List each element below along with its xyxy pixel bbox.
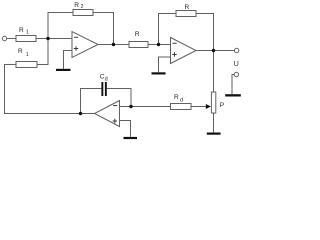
ground bar U1 plus: [56, 69, 71, 71]
resistor R middle body: [129, 42, 148, 48]
junction node F dot: [129, 105, 132, 108]
wire R1b to node A: [37, 39, 48, 65]
svg-text:U: U: [234, 61, 239, 68]
wire potentiometer to ground: [213, 113, 215, 133]
wire R2 to node B: [93, 13, 114, 45]
ground bar U3 plus: [124, 137, 138, 139]
junction node E dot: [79, 112, 82, 115]
junction node C dot: [157, 43, 160, 46]
capacitor Cd right plate: [105, 82, 107, 96]
wire node E up to capacitor Cd: [81, 89, 102, 114]
ground bar potentiometer: [207, 133, 221, 135]
ground bar U2 plus: [152, 72, 166, 74]
wire capacitor Cd to node F: [107, 89, 131, 107]
resistor R1 top body: [16, 36, 36, 42]
svg-text:P: P: [220, 102, 224, 109]
svg-text:R: R: [185, 4, 190, 11]
output terminal circle U: [234, 48, 238, 52]
svg-text:R: R: [135, 31, 140, 38]
wire node A up and to R2: [48, 13, 73, 39]
potentiometer wiper arrowhead: [206, 104, 211, 109]
svg-text:d: d: [180, 97, 183, 103]
wire U2 plus to ground: [159, 57, 171, 72]
capacitor Cd left plate: [101, 82, 103, 96]
wire node D down to potentiometer: [213, 51, 215, 93]
resistor R2 body: [73, 10, 93, 16]
op-amp U2 triangle: [171, 38, 197, 64]
wire input to R1a: [7, 38, 16, 40]
svg-text:R: R: [18, 48, 23, 55]
svg-text:R: R: [74, 2, 79, 9]
wire node C up to R feedback: [159, 14, 177, 45]
wire Rd to potentiometer wiper arrow: [191, 106, 206, 108]
svg-text:2: 2: [81, 4, 84, 10]
wire op-amp U3 minus to Rd: [120, 106, 171, 108]
svg-text:R: R: [19, 27, 24, 34]
op-amp U3 minus sign: [113, 105, 117, 107]
svg-text:R: R: [174, 94, 179, 101]
wire terminal 0V to ground: [232, 75, 234, 95]
op-amp U3 triangle (points left): [95, 101, 120, 127]
ground bar reference terminal: [225, 94, 241, 96]
resistor R1 bottom body: [16, 62, 37, 68]
wire R1a to op-amp U1 minus: [36, 38, 72, 40]
junction node A dot: [46, 37, 49, 40]
op-amp U1 plus sign: [74, 46, 78, 50]
svg-text:1: 1: [26, 52, 29, 58]
op-amp U2 plus sign: [172, 52, 176, 56]
wire U1 plus to ground: [64, 51, 73, 69]
wire op-amp U1 output to R: [98, 44, 129, 46]
resistor R feedback body: [176, 11, 196, 17]
wire R feedback to node D: [196, 14, 214, 51]
potentiometer P body: [211, 92, 215, 113]
junction node D dot: [212, 49, 215, 52]
junction node B dot: [112, 43, 115, 46]
op-amp U3 plus sign: [113, 119, 117, 123]
svg-text:1: 1: [26, 29, 29, 35]
op-amp U2 minus sign: [173, 42, 177, 44]
resistor Rd body: [171, 104, 192, 110]
wire U3 plus to ground: [120, 121, 131, 137]
wire R to op-amp U2 minus: [148, 44, 171, 46]
op-amp U1 triangle: [72, 32, 98, 58]
input terminal circle: [2, 36, 6, 40]
op-amp U1 minus sign: [74, 36, 78, 38]
svg-text:d: d: [105, 77, 108, 83]
reference terminal circle: [234, 72, 238, 76]
wire R1b around left to op-amp U3 output: [5, 65, 95, 114]
wire op-amp U2 output to terminal U: [196, 50, 234, 52]
